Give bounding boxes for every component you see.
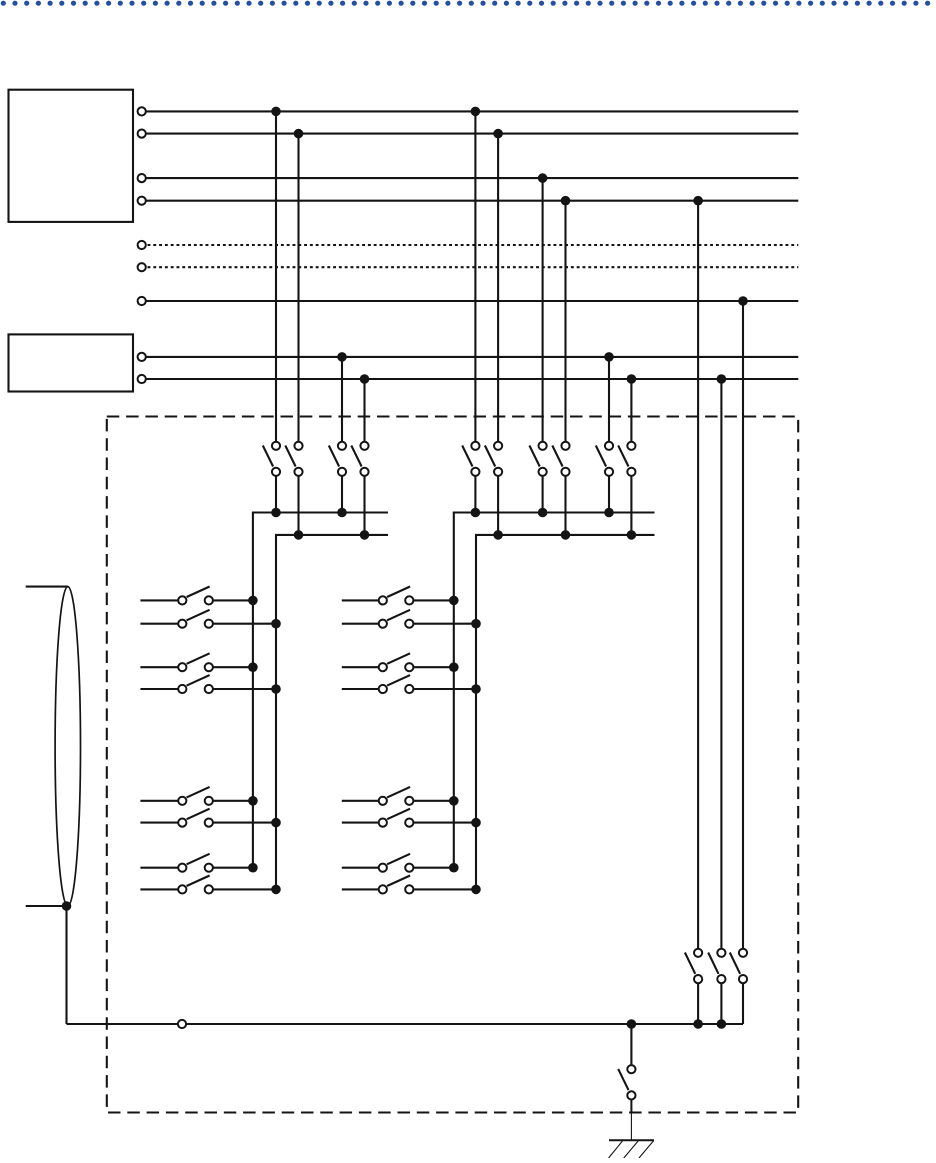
wire: switch S4 to bus <box>363 472 365 535</box>
isolating switch G1R6 <box>178 809 213 827</box>
wire L5 (horizontal line 5) <box>142 244 799 246</box>
wire: switch G2R2 to bus <box>409 623 476 625</box>
junction of row G2R5 on bus drop <box>449 796 459 806</box>
junction of feeder F1 on L4 <box>693 196 703 206</box>
terminal T6 <box>138 263 146 271</box>
isolating switch G2R6 <box>379 809 414 827</box>
junction of branch 1 on bus <box>271 508 281 518</box>
disconnect switch S8 <box>552 442 569 476</box>
junction of earth branch on bottom bus <box>627 1019 637 1029</box>
isolating switch G2R2 <box>379 610 414 628</box>
wire: feeder F1 drop from L4 <box>697 201 699 953</box>
wire L9 (horizontal line 9) <box>142 378 799 380</box>
terminal T3 <box>138 174 146 182</box>
junction at bottom of W1 <box>62 901 72 911</box>
wire: open lead of switch G1R1 <box>140 599 182 601</box>
wire: switch G1R6 to bus <box>209 822 276 824</box>
bus B1 (group 2 upper bus with left drop) <box>454 513 655 868</box>
wire: switch G1R1 to bus <box>209 599 253 601</box>
junction of row G2R2 on bus drop <box>471 619 481 629</box>
isolating switch G1R1 <box>178 587 213 605</box>
isolating switch G1R4 <box>178 675 213 693</box>
wire: drop from L1 to switch S5 <box>474 111 476 445</box>
wire: switch G1R8 to bus <box>209 888 276 890</box>
junction of branch 5 on L1 <box>471 107 481 117</box>
junction of feeder F3 on L7 <box>738 296 748 306</box>
wire: switch G2R8 to bus <box>409 888 476 890</box>
wire: switch S5 to bus <box>474 472 476 513</box>
junction of branch 3 on bus <box>337 508 347 518</box>
junction of branch 8 on bus <box>561 530 571 540</box>
wire: switch G2R4 to bus <box>409 688 476 690</box>
wire: drop from L9 to switch S4 <box>363 379 365 446</box>
disconnect switch S5 <box>462 442 479 476</box>
terminal T2 <box>138 130 146 138</box>
isolating switch G2R1 <box>379 587 414 605</box>
isolating switch G2R7 <box>379 854 414 872</box>
wire: open lead of switch G1R3 <box>140 666 182 668</box>
junction of branch 6 on L2 <box>493 129 503 139</box>
terminal T7 <box>138 297 146 305</box>
disconnect switch S9 <box>596 442 613 476</box>
wire: open lead of switch G2R2 <box>342 623 383 625</box>
wire: open lead of switch G2R7 <box>342 867 383 869</box>
bus A2 (group 1 lower bus with left drop) <box>276 535 388 890</box>
enclosure (dashed switchgear boundary) <box>107 417 798 1113</box>
wire: open lead of switch G1R4 <box>140 688 182 690</box>
junction of row G2R6 on bus drop <box>471 818 481 828</box>
wire: open lead of switch G2R6 <box>342 822 383 824</box>
junction of row G1R8 on bus drop <box>271 885 281 895</box>
wire: open lead of switch G2R3 <box>342 666 383 668</box>
junction of branch 7 on L3 <box>538 173 548 183</box>
wire: bottom bus to earthing switch <box>630 1024 632 1069</box>
wire: switch G2R6 to bus <box>409 822 476 824</box>
junction of branch 4 on bus <box>360 530 370 540</box>
junction of branch 8 on L4 <box>561 196 571 206</box>
wire: drop from L4 to switch S8 <box>564 201 566 446</box>
disconnect switch SF1 <box>685 949 702 984</box>
wire: open lead of switch G1R8 <box>140 888 182 890</box>
junction of feeder F1 on bottom bus <box>693 1019 703 1029</box>
wire: drop from L2 to switch S6 <box>497 134 499 446</box>
terminal T5 <box>138 241 146 249</box>
wire: switch S6 to bus <box>497 472 499 535</box>
wire: switch G2R1 to bus <box>409 599 454 601</box>
junction of branch 1 on L1 <box>271 107 281 117</box>
wire: W1 bottom down to bottom bus <box>65 906 67 1024</box>
terminal TN on bottom bus <box>178 1020 186 1028</box>
terminal T8 <box>138 353 146 361</box>
wire: switch SF1 to bottom bus <box>697 979 699 1024</box>
junction of branch 9 on bus <box>604 508 614 518</box>
junction of branch 10 on bus <box>627 530 637 540</box>
wire: open lead of switch G1R6 <box>140 822 182 824</box>
junction of branch 7 on bus <box>538 508 548 518</box>
isolating switch G1R5 <box>178 787 213 805</box>
terminal T1 <box>138 107 146 115</box>
disconnect switch S2 <box>285 442 302 476</box>
isolating switch G1R3 <box>178 653 213 671</box>
isolating switch G2R4 <box>379 675 414 693</box>
wire: switch G2R5 to bus <box>409 800 454 802</box>
wire: switch S10 to bus <box>630 472 632 535</box>
bottom bus N (horizontal) <box>67 1023 744 1025</box>
bus A1 (group 1 upper bus with left drop) <box>253 513 388 868</box>
junction of row G1R5 on bus drop <box>248 796 258 806</box>
wire: switch G1R4 to bus <box>209 688 276 690</box>
wire: switch SF2 to bottom bus <box>720 979 722 1024</box>
wire: switch SF3 to bottom bus <box>742 979 744 1024</box>
wire L4 (horizontal line 4) <box>142 200 799 202</box>
junction of feeder F2 on L9 <box>717 374 727 384</box>
ground (earth electrode symbol) <box>609 1140 654 1158</box>
junction of row G1R4 on bus drop <box>271 684 281 694</box>
disconnect switch S6 <box>485 442 502 476</box>
disconnect switch S7 <box>529 442 546 476</box>
wire: open lead of switch G2R4 <box>342 688 383 690</box>
junction of row G2R1 on bus drop <box>449 596 459 606</box>
wire: stub at top of W1 <box>26 586 68 588</box>
wire: drop from L8 to switch S3 <box>341 357 343 446</box>
wire L7 (horizontal line 7) <box>142 300 799 302</box>
disconnect switch S4 <box>351 442 368 476</box>
junction of row G2R8 on bus drop <box>471 885 481 895</box>
disconnect switch SF3 <box>730 949 747 984</box>
wire: switch G1R5 to bus <box>209 800 253 802</box>
wire: open lead of switch G1R5 <box>140 800 182 802</box>
junction of row G2R7 on bus drop <box>449 863 459 873</box>
wire: drop from L1 to switch S1 <box>275 111 277 445</box>
box U1 (upper-left device) <box>9 90 134 222</box>
wire: switch G2R7 to bus <box>409 867 454 869</box>
wire: open lead of switch G2R8 <box>342 888 383 890</box>
junction of row G1R1 on bus drop <box>248 596 258 606</box>
wire: drop from L2 to switch S2 <box>297 134 299 446</box>
wire: switch S2 to bus <box>297 472 299 535</box>
cable / winding W1 (ellipse) <box>55 587 80 906</box>
wire: switch S9 to bus <box>608 472 610 513</box>
junction of row G1R7 on bus drop <box>248 863 258 873</box>
wire L3 (horizontal line 3) <box>142 177 799 179</box>
wire: switch G1R7 to bus <box>209 867 253 869</box>
wire: drop from L8 to switch S9 <box>608 357 610 446</box>
disconnect switch S3 <box>329 442 346 476</box>
junction of branch 10 on L9 <box>627 374 637 384</box>
wire: open lead of switch G1R2 <box>140 623 182 625</box>
wire: drop from L9 to switch S10 <box>630 379 632 446</box>
wire: open lead of switch G2R1 <box>342 599 383 601</box>
junction of branch 2 on L2 <box>294 129 304 139</box>
wire: feeder F3 drop from L7 <box>742 301 744 953</box>
bus B2 (group 2 lower bus with left drop) <box>476 535 655 890</box>
junction of row G1R3 on bus drop <box>248 662 258 672</box>
wire: switch S1 to bus <box>275 472 277 513</box>
junction of row G1R6 on bus drop <box>271 818 281 828</box>
isolating switch G2R3 <box>379 653 414 671</box>
junction of feeder F2 on bottom bus <box>717 1019 727 1029</box>
terminal T4 <box>138 197 146 205</box>
disconnect switch S1 <box>263 442 280 476</box>
wire: switch G1R3 to bus <box>209 666 253 668</box>
wire: stub at bottom of W1 <box>26 905 67 907</box>
wire L8 (horizontal line 8) <box>142 356 799 358</box>
wire: switch S8 to bus <box>564 472 566 535</box>
wire L2 (horizontal line 2) <box>142 133 799 135</box>
junction of branch 9 on L8 <box>604 352 614 362</box>
disconnect switch SF2 <box>708 949 725 984</box>
terminal T9 <box>138 375 146 383</box>
junction of row G2R3 on bus drop <box>449 662 459 672</box>
wire: earthing switch to ground <box>630 1100 632 1113</box>
wire: open lead of switch G1R7 <box>140 867 182 869</box>
wire: switch S3 to bus <box>341 472 343 513</box>
wire: drop from L3 to switch S7 <box>542 178 544 446</box>
wire: switch S7 to bus <box>542 472 544 513</box>
wire: feeder F2 drop from L9 <box>720 379 722 953</box>
wire L1 (horizontal line 1) <box>142 110 799 112</box>
junction of row G2R4 on bus drop <box>471 684 481 694</box>
isolating switch G2R5 <box>379 787 414 805</box>
disconnect switch S10 <box>618 442 635 476</box>
isolating switch G1R7 <box>178 854 213 872</box>
junction of branch 2 on bus <box>294 530 304 540</box>
wire: switch G1R2 to bus <box>209 623 276 625</box>
wire: switch G2R3 to bus <box>409 666 454 668</box>
junction of branch 3 on L8 <box>337 352 347 362</box>
junction of branch 6 on bus <box>493 530 503 540</box>
junction of branch 5 on bus <box>471 508 481 518</box>
wire L6 (horizontal line 6) <box>142 266 799 268</box>
isolating switch G2R8 <box>379 876 414 894</box>
isolating switch G1R8 <box>178 876 213 894</box>
earthing switch SE <box>618 1065 635 1099</box>
junction of branch 4 on L9 <box>360 374 370 384</box>
isolating switch G1R2 <box>178 610 213 628</box>
wire: open lead of switch G2R5 <box>342 800 383 802</box>
box U2 (lower-left device) <box>9 334 134 391</box>
junction of row G1R2 on bus drop <box>271 619 281 629</box>
